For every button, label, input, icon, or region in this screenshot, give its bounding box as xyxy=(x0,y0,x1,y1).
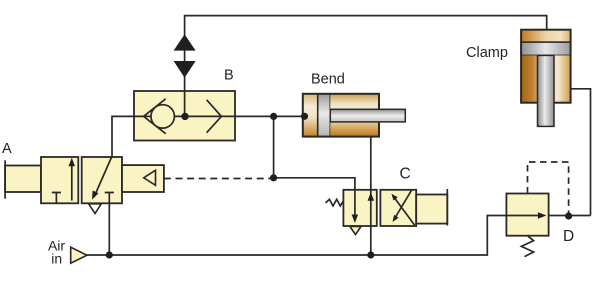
dashed pilot wire from valve A to junction xyxy=(164,178,274,180)
Clamp cylinder piston band xyxy=(521,42,571,55)
svg-text:A: A xyxy=(2,141,12,157)
valve A blocked port tee in right box xyxy=(105,193,114,204)
junction dot at valve D outlet xyxy=(565,212,572,219)
Bend cylinder piston rod xyxy=(330,109,405,122)
valve A blocked port tee in left box xyxy=(52,193,61,204)
svg-text:C: C xyxy=(400,165,411,182)
Clamp cylinder cap section xyxy=(521,30,571,42)
junction dot valve A supply at bus xyxy=(106,251,113,258)
dashed pilot wire from valve D top to outlet junction xyxy=(528,162,569,213)
valve C exhaust triangle xyxy=(350,227,361,235)
wire through valve B to Bend cylinder left port xyxy=(134,115,305,117)
Bend cylinder body xyxy=(330,94,379,137)
junction dot at pilot tee xyxy=(270,174,277,181)
svg-text:in: in xyxy=(51,251,62,267)
Bend cylinder cap section xyxy=(303,94,318,137)
air in triangle xyxy=(71,247,87,263)
valve A left actuator block xyxy=(5,166,41,193)
valve A left end plate bar xyxy=(4,160,6,198)
valve C right actuator block xyxy=(416,195,447,224)
valve A position box right xyxy=(82,157,122,203)
valve A right pilot actuator block xyxy=(122,165,164,192)
junction dot on Bend supply line xyxy=(270,113,277,120)
Bend cylinder piston plate xyxy=(318,94,331,137)
valve D body box xyxy=(506,194,548,236)
valve A diagonal arrow in right box xyxy=(92,157,112,200)
supply bus wire xyxy=(87,216,507,256)
check valve ball circle in valve B xyxy=(151,105,174,128)
Bend cylinder outline xyxy=(303,94,379,137)
valve C actuator end bar xyxy=(446,189,448,226)
valve C crossover arrow down-left xyxy=(393,190,412,222)
junction dot inside valve B xyxy=(181,113,188,120)
wire riser from Bend supply line down to pilot junction xyxy=(273,116,275,177)
exhaust restrictor upper triangle above valve B xyxy=(174,34,196,50)
valve C left position box xyxy=(343,190,376,226)
valve D flow arrow xyxy=(506,212,546,219)
valve A position box left xyxy=(41,157,78,203)
junction dot at Bend cylinder left port xyxy=(301,113,308,120)
wire from valve B junction up to clamp cylinder top port xyxy=(185,16,547,117)
exhaust restrictor lower triangle above valve B xyxy=(174,61,196,78)
junction dot valve C supply at bus xyxy=(367,251,374,258)
wire valve D outlet xyxy=(549,215,591,217)
wire from pilot junction to valve C exhaust port with down arrow xyxy=(274,178,359,223)
wire clamp cylinder right port down to valve D outlet xyxy=(571,89,591,216)
svg-text:Clamp: Clamp xyxy=(466,45,508,61)
Clamp cylinder piston rod xyxy=(538,55,555,126)
Clamp cylinder body xyxy=(521,55,571,102)
valve D spring xyxy=(521,236,533,257)
Clamp cylinder outline xyxy=(521,30,571,103)
check valve seat in valve B xyxy=(144,99,166,134)
valve A exhaust triangle xyxy=(89,204,102,214)
valve A up arrow in left box xyxy=(69,158,76,201)
valve A pilot triangle xyxy=(144,170,156,185)
wire from valve A outlet up to valve B inlet xyxy=(112,116,134,157)
svg-text:Bend: Bend xyxy=(311,72,345,88)
valve B body box xyxy=(134,91,235,141)
valve C crossover arrow up-left xyxy=(392,194,415,226)
wire valve A supply drop to bus xyxy=(108,203,110,255)
wire from Bend cylinder bottom through valve C to supply bus with up arrow xyxy=(368,137,375,255)
valve C spring xyxy=(326,199,344,206)
svg-text:D: D xyxy=(563,228,574,245)
svg-text:B: B xyxy=(224,68,234,84)
flow chevron in valve B xyxy=(207,100,222,133)
valve C right position box xyxy=(380,190,416,226)
label Air in xyxy=(48,238,65,267)
